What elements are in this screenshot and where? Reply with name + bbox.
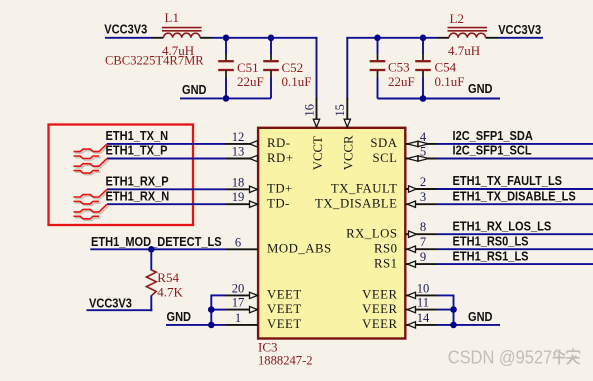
- svg-text:ETH1_RX_N: ETH1_RX_N: [106, 189, 170, 204]
- junction dot bottom-right rail: [420, 95, 427, 102]
- node label ETH1_RX_P: [106, 174, 169, 189]
- svg-text:CSDN @9527: CSDN @9527: [448, 347, 553, 368]
- svg-text:C51: C51: [237, 60, 259, 75]
- svg-text:TD+: TD+: [267, 182, 293, 196]
- svg-text:VEET: VEET: [267, 317, 302, 331]
- svg-text:SCL: SCL: [373, 151, 398, 165]
- inductor L2: [437, 28, 498, 38]
- svg-text:18: 18: [232, 175, 245, 189]
- svg-text:6: 6: [235, 235, 241, 249]
- svg-text:CBC3225T4R7MR: CBC3225T4R7MR: [105, 54, 204, 68]
- svg-text:VEER: VEER: [362, 317, 397, 331]
- wire pin10: [437, 294, 454, 296]
- svg-text:I2C_SFP1_SCL: I2C_SFP1_SCL: [453, 143, 532, 158]
- capacitor C52: [263, 38, 279, 99]
- junction dots top-right rail: [374, 35, 381, 42]
- capacitor C53: [370, 38, 386, 99]
- power port VCC3V3 (top right): [498, 22, 541, 37]
- svg-text:ETH1_TX_P: ETH1_TX_P: [106, 143, 168, 158]
- svg-text:10: 10: [417, 281, 430, 295]
- svg-text:TX_DISABLE: TX_DISABLE: [315, 197, 398, 211]
- pin 14 right: [405, 311, 437, 328]
- ground GND (bottom left): [167, 309, 192, 324]
- pin 20 (VEET) left: [226, 281, 258, 298]
- wire net ETH1_RS0_LS: [437, 248, 593, 250]
- pin 16 (VCCT) top: [303, 98, 320, 128]
- node label ETH1_TX_P: [106, 143, 168, 158]
- svg-text:16: 16: [303, 104, 317, 116]
- svg-text:IC3: IC3: [258, 340, 278, 355]
- wire pin20: [211, 294, 226, 296]
- pin 11 right: [405, 296, 437, 313]
- wire net ETH1_TX_P: [107, 158, 226, 160]
- svg-text:8: 8: [420, 220, 426, 234]
- svg-text:GND: GND: [468, 309, 493, 324]
- svg-text:1: 1: [235, 311, 241, 325]
- svg-text:19: 19: [232, 190, 245, 204]
- svg-text:ETH1_RX_LOS_LS: ETH1_RX_LOS_LS: [453, 219, 552, 234]
- svg-text:12: 12: [232, 130, 245, 144]
- svg-text:17: 17: [232, 296, 245, 310]
- svg-text:GND: GND: [167, 309, 192, 324]
- svg-text:MOD_ABS: MOD_ABS: [267, 242, 332, 256]
- svg-text:15: 15: [333, 104, 347, 116]
- svg-text:R54: R54: [157, 270, 179, 285]
- svg-text:TX_FAULT: TX_FAULT: [331, 181, 398, 195]
- watermark CJK glyphs: [553, 348, 580, 364]
- svg-text:C53: C53: [388, 60, 410, 75]
- watermark CSDN @9527 (decor text): [448, 347, 553, 368]
- svg-text:7: 7: [420, 235, 426, 249]
- svg-text:RX_LOS: RX_LOS: [346, 227, 397, 241]
- ground GND (bottom right): [468, 309, 493, 324]
- svg-text:ETH1_MOD_DETECT_LS: ETH1_MOD_DETECT_LS: [91, 234, 222, 249]
- svg-text:VCC3V3: VCC3V3: [104, 22, 147, 37]
- svg-text:ETH1_RS0_LS: ETH1_RS0_LS: [453, 234, 529, 249]
- node label ETH1_RX_LOS_LS: [453, 219, 552, 234]
- pin 19 (TD-) left: [226, 190, 258, 207]
- svg-text:4.7uH: 4.7uH: [448, 43, 480, 58]
- svg-text:4.7K: 4.7K: [157, 284, 183, 299]
- junction dot bottom-left rail: [223, 95, 230, 102]
- pin 18 (TD+) left: [226, 175, 258, 192]
- node label ETH1_TX_FAULT_LS: [453, 173, 563, 188]
- svg-text:ETH1_TX_N: ETH1_TX_N: [106, 128, 169, 143]
- node label I2C_SFP1_SDA: [453, 128, 534, 143]
- pin 3 right: [405, 190, 437, 207]
- svg-text:VCCR: VCCR: [342, 135, 356, 170]
- differential pair directive on ETH1_RX_N: [74, 204, 109, 220]
- svg-text:RS0: RS0: [374, 242, 398, 256]
- svg-text:VEET: VEET: [267, 302, 302, 316]
- pin 5 right: [405, 145, 437, 162]
- wire pin14 + GND stub: [437, 324, 500, 326]
- svg-text:VCC3V3: VCC3V3: [498, 22, 541, 37]
- svg-text:ETH1_RX_P: ETH1_RX_P: [106, 174, 169, 189]
- wire net ETH1_RX_LOS_LS: [437, 233, 593, 235]
- pin 2 right: [405, 175, 437, 192]
- node label ETH1_TX_N: [106, 128, 169, 143]
- wire net ETH1_TX_N: [107, 143, 226, 145]
- pin 6 (MOD_ABS) left: [226, 235, 258, 249]
- svg-text:ETH1_TX_DISABLE_LS: ETH1_TX_DISABLE_LS: [453, 189, 576, 204]
- differential pair directive on ETH1_RX_P: [74, 189, 109, 205]
- svg-text:9: 9: [420, 250, 426, 264]
- differential pair directive on ETH1_TX_P: [74, 159, 109, 175]
- svg-text:GND: GND: [182, 82, 207, 97]
- wire VEER vertical: [453, 295, 455, 325]
- svg-text:VEER: VEER: [362, 288, 397, 302]
- wire top-right rail: [346, 37, 437, 39]
- wire VEET vertical: [210, 295, 212, 325]
- node label ETH1_MOD_DETECT_LS: [91, 234, 222, 249]
- svg-text:ETH1_TX_FAULT_LS: ETH1_TX_FAULT_LS: [453, 173, 563, 188]
- pin 12 (RD-) left: [226, 130, 258, 147]
- pin 15 (VCCR) top: [333, 98, 350, 128]
- blanket box (red) around diff pairs: [49, 125, 194, 226]
- svg-text:SDA: SDA: [370, 136, 397, 150]
- svg-text:RD+: RD+: [267, 151, 294, 165]
- pin 10 right: [405, 281, 437, 298]
- pin 8 right: [405, 220, 437, 237]
- wire pin11: [437, 309, 454, 311]
- power port VCC3V3 (top left): [104, 22, 147, 37]
- wire down to pin 16: [316, 37, 318, 99]
- pin 4 right: [405, 130, 437, 147]
- pin 13 (RD+) left: [226, 145, 258, 162]
- wire bottom rail right: [378, 98, 501, 100]
- svg-text:1888247-2: 1888247-2: [258, 354, 313, 368]
- wire VCC3V3 to L1: [105, 37, 151, 39]
- svg-text:22uF: 22uF: [388, 74, 415, 89]
- wire top-left rail: [212, 37, 317, 39]
- svg-text:22uF: 22uF: [237, 74, 264, 89]
- wire pin1: [166, 324, 226, 326]
- wire R54 bottom lead: [150, 295, 152, 311]
- node label ETH1_RS0_LS: [453, 234, 529, 249]
- pin 1 (VEET) left: [226, 311, 258, 325]
- wire net ETH1_RX_N: [107, 203, 226, 205]
- svg-text:0.1uF: 0.1uF: [282, 74, 312, 89]
- wire net I2C_SFP1_SDA: [437, 143, 593, 145]
- svg-text:VCCT: VCCT: [311, 136, 325, 170]
- wire net ETH1_TX_DISABLE_LS: [437, 203, 593, 205]
- wire net I2C_SFP1_SCL: [437, 158, 593, 160]
- ground GND (top right): [468, 81, 493, 96]
- junction dots VEER: [450, 306, 457, 313]
- svg-text:0.1uF: 0.1uF: [435, 74, 465, 89]
- wire net ETH1_TX_FAULT_LS: [437, 188, 593, 190]
- svg-text:L1: L1: [165, 10, 179, 25]
- svg-text:11: 11: [417, 296, 429, 310]
- op-amp/IC body IC3 1888247-2 (SFP cage): [258, 128, 405, 339]
- node label ETH1_RX_N: [106, 189, 170, 204]
- svg-text:RS1: RS1: [374, 256, 398, 270]
- wire L2 to VCC3V3: [498, 37, 543, 39]
- junction dot R54 top: [148, 246, 155, 253]
- wire net ETH1_MOD_DETECT_LS: [90, 248, 226, 250]
- differential pair directive on ETH1_TX_N: [74, 144, 109, 160]
- svg-text:20: 20: [232, 281, 245, 295]
- svg-text:14: 14: [417, 311, 430, 325]
- pin 9 right: [405, 250, 437, 267]
- svg-text:ETH1_RS1_LS: ETH1_RS1_LS: [453, 248, 529, 263]
- power port VCC3V3 (bottom left): [89, 296, 132, 311]
- svg-text:C52: C52: [282, 60, 304, 75]
- resistor R54: [146, 270, 156, 296]
- wire R54 to VCC3V3: [87, 309, 153, 311]
- svg-text:VCC3V3: VCC3V3: [89, 296, 132, 311]
- svg-text:VEET: VEET: [267, 288, 302, 302]
- pin 17 (VEET) left: [226, 296, 258, 313]
- svg-text:TD-: TD-: [267, 197, 290, 211]
- junction dots top-left rail: [223, 35, 230, 42]
- junction dots VEET: [208, 306, 215, 313]
- capacitor C51: [218, 38, 234, 99]
- svg-text:GND: GND: [468, 81, 493, 96]
- wire bottom rail left: [180, 97, 271, 99]
- wire net ETH1_RS1_LS: [437, 263, 593, 265]
- svg-text:L2: L2: [450, 11, 464, 26]
- pin 7 right: [405, 235, 437, 252]
- node label ETH1_TX_DISABLE_LS: [453, 189, 576, 204]
- ground GND (top left): [182, 82, 207, 97]
- capacitor C54: [415, 38, 431, 99]
- svg-text:3: 3: [420, 190, 426, 204]
- wire net ETH1_RX_P: [107, 188, 226, 190]
- svg-text:2: 2: [420, 175, 426, 189]
- svg-text:13: 13: [232, 145, 245, 159]
- wire down to pin 15: [346, 37, 348, 99]
- wire pin17: [211, 309, 226, 311]
- node label ETH1_RS1_LS: [453, 248, 529, 263]
- inductor L1: [151, 28, 212, 38]
- svg-text:C54: C54: [435, 60, 457, 75]
- svg-text:VEER: VEER: [362, 302, 397, 316]
- svg-text:RD-: RD-: [267, 136, 291, 150]
- svg-text:I2C_SFP1_SDA: I2C_SFP1_SDA: [453, 128, 534, 143]
- node label I2C_SFP1_SCL: [453, 143, 532, 158]
- wire R54 top lead: [150, 249, 152, 270]
